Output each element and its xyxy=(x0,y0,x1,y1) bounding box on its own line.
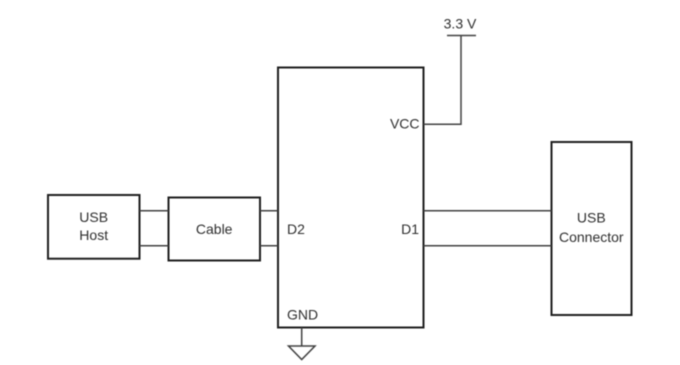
svg-text:USB: USB xyxy=(577,210,606,226)
svg-text:Connector: Connector xyxy=(559,229,624,245)
svg-text:VCC: VCC xyxy=(390,116,420,132)
svg-text:Host: Host xyxy=(79,227,108,243)
svg-text:GND: GND xyxy=(287,307,318,323)
svg-text:USB: USB xyxy=(79,209,108,225)
svg-text:D1: D1 xyxy=(401,221,419,237)
svg-text:Cable: Cable xyxy=(196,221,233,237)
svg-text:3.3 V: 3.3 V xyxy=(444,15,477,31)
svg-text:D2: D2 xyxy=(287,221,305,237)
